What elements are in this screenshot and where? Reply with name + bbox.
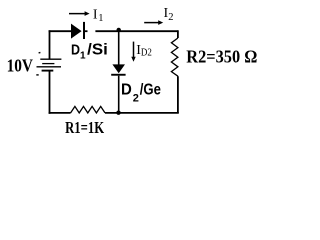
diode D2 cathode bar: [111, 74, 125, 76]
diode D1 (Si) triangle: [71, 24, 82, 39]
battery V1 plate 1 (long): [40, 58, 61, 60]
wire bottom right segment (corner to node B): [105, 112, 179, 114]
svg-text:I: I: [93, 7, 98, 22]
battery plus mark: [39, 51, 41, 54]
svg-text:D2: D2: [141, 48, 152, 59]
current arrow I2: [144, 22, 159, 24]
battery minus mark: [36, 74, 38, 76]
node A junction dot (top of D2 branch): [117, 28, 121, 32]
current arrow ID2: [133, 42, 135, 58]
wire D2 branch upper (node A to D2 anode): [118, 30, 120, 65]
svg-text:/Si: /Si: [87, 42, 108, 59]
wire left vertical lower (battery bottom to bottom-left corner): [49, 71, 51, 114]
wire D2 branch lower (D2 cathode to node B): [118, 76, 120, 113]
wire bottom left segment (R1 to bottom-left corner): [49, 112, 71, 114]
wire top-left horizontal (corner to D1 anode): [49, 30, 71, 32]
wire left vertical upper (corner to battery top plate): [49, 30, 51, 59]
resistor R2 zigzag: [171, 38, 178, 76]
wire right vertical lower (R2 to bottom-right corner): [177, 76, 179, 113]
node B junction dot (bottom of D2 branch): [116, 111, 120, 115]
wire D1 cathode stub: [85, 30, 88, 32]
svg-text:2: 2: [168, 12, 173, 23]
svg-text:D: D: [71, 42, 80, 58]
svg-text:2: 2: [133, 93, 139, 105]
svg-text:10V: 10V: [7, 56, 34, 76]
wire top middle (after gap, to node A and on to top-right corner): [95, 30, 177, 32]
battery V1 plate 3 (long): [37, 66, 62, 68]
wire right vertical upper (corner to R2): [177, 30, 179, 38]
diode D2 (Ge) triangle: [112, 64, 125, 73]
battery V1 plate 4 (short thick): [42, 70, 54, 72]
svg-text:1: 1: [98, 13, 103, 24]
battery V1 plate 2 (short): [42, 63, 54, 65]
svg-text:1: 1: [80, 50, 86, 61]
svg-text:R1=1K: R1=1K: [65, 118, 105, 137]
current arrow I1: [69, 13, 85, 15]
diode D1 cathode bar: [83, 22, 85, 39]
svg-text:R2=350 Ω: R2=350 Ω: [186, 47, 257, 67]
svg-text:/Ge: /Ge: [140, 82, 161, 99]
resistor R1 zigzag: [71, 106, 105, 113]
svg-text:D: D: [121, 82, 132, 99]
